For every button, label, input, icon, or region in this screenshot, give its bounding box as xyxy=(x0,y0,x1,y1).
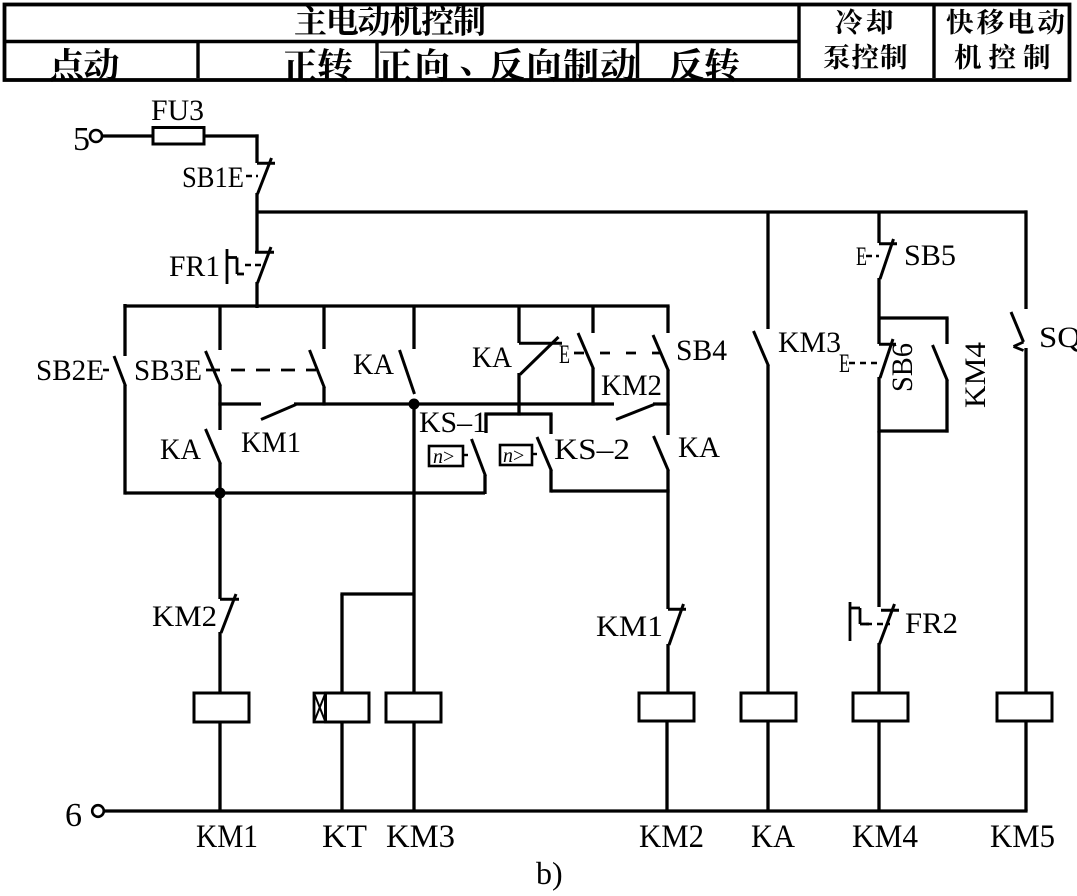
SB2 actuator dash xyxy=(103,369,112,372)
contact KM2 (NC) xyxy=(220,594,239,633)
relay contact KA (NO) right branch xyxy=(654,436,669,471)
pushbutton SB2 (NO) xyxy=(114,356,126,386)
pushbutton SB5 E label xyxy=(856,242,867,271)
node 6 label xyxy=(65,797,82,834)
contact KM1 (NO, horizontal) xyxy=(261,405,296,420)
relay contact KA label (left) xyxy=(160,433,201,466)
svg-text:KM2: KM2 xyxy=(152,600,217,633)
self-hold line middle segment xyxy=(294,402,614,405)
wire KA middle branch down xyxy=(412,404,415,694)
svg-text:KM2: KM2 xyxy=(639,819,704,855)
coil KM1 label xyxy=(196,819,258,855)
wire SB3 upper xyxy=(218,306,221,350)
terminal node 6 xyxy=(92,805,104,817)
wire KS-1 to bottom rail xyxy=(483,475,486,494)
pushbutton SB4 label xyxy=(676,334,727,367)
table cell text 正转 xyxy=(283,48,352,82)
contact KM2 NC label xyxy=(152,600,217,633)
pushbutton SB6 E label xyxy=(839,349,850,378)
svg-text:KA: KA xyxy=(160,433,201,466)
wire SB6 to FR2 xyxy=(877,431,880,607)
contact KM3 label xyxy=(778,326,841,359)
bottom bus xyxy=(103,809,1028,812)
box top rail xyxy=(123,304,669,307)
top bus junction to right rail xyxy=(257,210,1027,213)
svg-text:FU3: FU3 xyxy=(151,94,204,127)
table cell text 冷却 xyxy=(836,8,893,34)
table cell text 泵控制 xyxy=(824,44,907,70)
thermal contact FR2 (NC) xyxy=(880,604,900,644)
thermal contact FR1 (NC) xyxy=(255,247,274,283)
junction dot on self-hold line xyxy=(409,399,420,410)
svg-text:SB6: SB6 xyxy=(886,343,919,392)
parallel block bottom wire xyxy=(879,429,949,432)
wire KM4 contact lower xyxy=(945,380,948,433)
table cell text 反转 xyxy=(669,48,739,82)
svg-text:KS–2: KS–2 xyxy=(554,433,630,466)
svg-text:KM4: KM4 xyxy=(852,819,918,855)
SB4 linkage dashed line xyxy=(574,352,661,355)
fuse FU3 xyxy=(153,128,204,145)
node 5 label xyxy=(73,121,90,158)
pushbutton SB5 (NC) xyxy=(879,239,897,279)
svg-text:E: E xyxy=(839,349,850,378)
pushbutton SB6 (NC) xyxy=(879,339,896,378)
speed relay contact KS-1 (NO) xyxy=(472,439,486,476)
pushbutton SB3 (NO) xyxy=(206,351,221,386)
coil KA label xyxy=(751,819,795,855)
svg-text:6: 6 xyxy=(65,797,82,834)
coil KM3 label xyxy=(386,819,455,855)
pushbutton SB6 label (rotated) xyxy=(886,343,919,392)
KS-1 n> box xyxy=(429,446,463,468)
svg-text:n>: n> xyxy=(503,445,524,467)
wire KM2 NC to KM1 coil xyxy=(218,632,221,694)
KS-1 box dash xyxy=(464,454,471,456)
wire KS-2 lower xyxy=(549,470,552,493)
relay contact KA label (NC) xyxy=(472,341,512,374)
wire KA right to KM1 contact xyxy=(666,470,669,609)
table column divider 3 xyxy=(636,42,639,79)
svg-text:KA: KA xyxy=(751,819,795,855)
figure caption b) xyxy=(536,855,563,891)
wire KT coil to bottom bus xyxy=(340,722,343,811)
thermal contact FR2 label xyxy=(905,607,958,640)
pushbutton SB1 (NC) xyxy=(257,158,275,194)
svg-text:n>: n> xyxy=(433,446,454,468)
pushbutton SB4 right contact (NO) xyxy=(653,335,669,371)
wire KA NC lower xyxy=(517,373,520,416)
svg-text:KM5: KM5 xyxy=(990,819,1055,855)
wire KM5 coil to bottom bus xyxy=(1024,721,1027,811)
contact KM2 (NO, horizontal) xyxy=(616,405,654,420)
speed relay contact KS-2 (NO) xyxy=(537,437,552,471)
table column divider 4 (full height) xyxy=(797,5,800,78)
terminal node 5 xyxy=(90,130,102,142)
SB3 linkage dashed line xyxy=(206,369,316,372)
KS-2 n> box xyxy=(500,445,532,467)
bottom rail right segment xyxy=(551,489,670,492)
wire right branch xyxy=(666,404,669,435)
wire KM3 contact branch upper xyxy=(766,212,769,329)
svg-text:KM3: KM3 xyxy=(778,326,841,359)
pushbutton SB4 left contact (NO) xyxy=(578,333,594,369)
fuse FU3 label xyxy=(151,94,204,127)
svg-text:FR2: FR2 xyxy=(905,607,958,640)
contact KM4 label (rotated) xyxy=(959,342,992,408)
parallel block top wire xyxy=(879,318,949,344)
contact KM4 (NO) xyxy=(933,345,948,381)
wire SQ to KM5 coil xyxy=(1024,348,1027,694)
wire SB5 branch upper xyxy=(877,212,880,243)
svg-text:KA: KA xyxy=(472,341,512,374)
wire KA branch upper xyxy=(412,306,415,349)
svg-text:SB5: SB5 xyxy=(904,239,956,272)
pushbutton SB5 label xyxy=(904,239,956,272)
wire SB2 upper xyxy=(123,304,126,356)
SB5 actuator dash xyxy=(866,255,879,258)
wire KA to bottom rail xyxy=(218,463,221,494)
wire SB6 lower xyxy=(877,377,880,433)
table column divider 1 xyxy=(196,42,199,79)
FR2 overload actuator xyxy=(850,602,890,641)
limit switch SQ label xyxy=(1039,321,1077,354)
svg-text:KM1: KM1 xyxy=(596,610,663,643)
wire KA coil to bottom bus xyxy=(766,721,769,811)
pushbutton SB2 label xyxy=(36,354,104,387)
wire SB2 lower xyxy=(123,385,126,495)
table cell text 机控制 xyxy=(955,44,1050,70)
SB4 actuator E label xyxy=(559,340,570,369)
wire SB4 left lower xyxy=(591,368,594,406)
coil KM4 xyxy=(853,693,908,721)
svg-text:E: E xyxy=(856,242,867,271)
wire FR2 to KM4 coil xyxy=(877,643,880,694)
wire FR1 to box xyxy=(255,282,258,308)
svg-text:SB1E: SB1E xyxy=(182,161,244,194)
svg-text:KA: KA xyxy=(678,431,720,464)
relay contact KA (NO) at left branch xyxy=(206,429,221,464)
pushbutton SB3 label xyxy=(134,354,202,387)
table column divider 2 xyxy=(375,42,378,79)
svg-text:SQ: SQ xyxy=(1039,321,1077,354)
svg-text:KS–1: KS–1 xyxy=(419,406,487,439)
relay contact KA label (right) xyxy=(678,431,720,464)
wire SB5 to parallel block xyxy=(877,278,880,344)
coil KT with delay X box xyxy=(314,693,369,722)
svg-text:FR1: FR1 xyxy=(169,250,220,283)
speed relay KS-1 label xyxy=(419,406,487,439)
table cell text 快移电动 xyxy=(947,9,1065,35)
svg-text:SB4: SB4 xyxy=(676,334,727,367)
wire KM2 coil to bottom bus xyxy=(665,721,668,811)
wire junction to KM2 contact xyxy=(218,492,221,599)
wire SB4 right contact upper xyxy=(666,306,669,333)
contact KM1 label xyxy=(241,426,301,459)
svg-text:KM1: KM1 xyxy=(241,426,301,459)
svg-text:b): b) xyxy=(536,855,563,891)
self-hold line right segment xyxy=(653,402,670,405)
svg-text:5: 5 xyxy=(73,121,90,158)
coil KM3 xyxy=(386,693,441,722)
coil KM1 xyxy=(194,693,249,722)
SB6 actuator dash xyxy=(849,362,879,365)
svg-text:KM4: KM4 xyxy=(959,342,992,408)
contact KM2 label xyxy=(601,369,662,402)
linked contact of SB3 (NO) xyxy=(310,350,325,388)
coil KM4 label xyxy=(852,819,918,855)
SB1 actuator dash xyxy=(246,175,258,178)
svg-text:KM2: KM2 xyxy=(601,369,662,402)
svg-text:E: E xyxy=(559,340,570,369)
contact KM1 NC label xyxy=(596,610,663,643)
table header text 主电动机控制 xyxy=(295,5,485,36)
table outer border xyxy=(5,5,1070,81)
table header row divider xyxy=(4,40,799,43)
coil KT label xyxy=(322,819,367,855)
FR1 overload actuator xyxy=(227,249,262,284)
table column divider 5 (full height) xyxy=(932,5,935,78)
wire linked contact to self-hold line xyxy=(322,387,325,406)
wire KM3 coil to bottom bus xyxy=(412,722,415,811)
relay contact KA (NC) xyxy=(519,337,562,375)
coil KM2 xyxy=(639,693,694,721)
box bottom rail left xyxy=(125,491,485,494)
table cell text 点动 xyxy=(50,48,119,82)
wire SB3 lower xyxy=(218,385,221,430)
coil KA xyxy=(741,693,796,721)
wire KM3 contact to KA coil xyxy=(766,365,769,694)
KT tee wire xyxy=(340,594,414,694)
KS-2 box dash xyxy=(533,453,538,455)
svg-text:SB3E: SB3E xyxy=(134,354,202,387)
wire KM4 coil to bottom bus xyxy=(877,721,880,811)
wire FU3 to corner xyxy=(204,134,259,163)
relay contact KA label (middle) xyxy=(353,348,394,381)
wire SQ branch from top bus xyxy=(1024,210,1027,309)
contact KM1 (NC) xyxy=(668,604,686,645)
pushbutton SB1 label xyxy=(182,161,244,194)
wire SB1 to FR1 xyxy=(255,193,258,252)
wire node5 to FU3 xyxy=(102,134,153,137)
svg-text:KT: KT xyxy=(322,819,367,855)
relay contact KA (NO) middle branch xyxy=(400,350,415,394)
wire KM1 coil to bottom bus xyxy=(218,722,221,811)
svg-text:KA: KA xyxy=(353,348,394,381)
junction dot lower left xyxy=(215,488,226,499)
svg-text:KM1: KM1 xyxy=(196,819,258,855)
limit switch SQ (NO) xyxy=(1011,312,1024,351)
linked contact of SB3 upper wire xyxy=(322,306,325,349)
coil KM2 label xyxy=(639,819,704,855)
coil KM5 xyxy=(997,693,1052,721)
coil KM5 label xyxy=(990,819,1055,855)
wire KA NC branch upper xyxy=(517,306,520,343)
wire SB4 right lower xyxy=(666,370,669,406)
wire KM1 NC to KM2 coil xyxy=(666,644,669,694)
wire SB4 left contact upper xyxy=(591,306,594,333)
speed relay KS-2 label xyxy=(554,433,630,466)
speed-relay feeder bracket xyxy=(484,414,552,434)
svg-text:SB2E: SB2E xyxy=(36,354,104,387)
thermal contact FR1 label xyxy=(169,250,220,283)
self-hold line left segment xyxy=(218,402,261,405)
svg-text:KM3: KM3 xyxy=(386,819,455,855)
table cell text 正向、反向制动 xyxy=(378,48,635,82)
contact KM3 (NO) xyxy=(754,331,769,366)
